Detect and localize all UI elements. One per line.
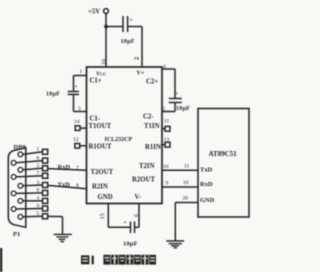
pin 11 T1IN pad [162, 119, 170, 132]
wire RxD net DB9 pin2 to pin7 T2OUT [48, 169, 87, 171]
svg-text:14: 14 [74, 119, 80, 125]
DB9 pin 1 [18, 147, 48, 157]
wire TxD net DB9 pin3 to pin8 R2IN [48, 185, 87, 188]
DB9 pin 4 [18, 196, 48, 204]
wire C1 down to pin3 [73, 94, 75, 111]
svg-text:T2IN: T2IN [139, 163, 155, 170]
IC U2 AT89C51 [198, 109, 249, 218]
caption 图1 串行通信原理图 [81, 255, 156, 265]
svg-text:GND: GND [200, 197, 215, 204]
svg-text:V+: V+ [137, 71, 145, 77]
ground GND2 (AT89C51) [166, 241, 184, 248]
svg-text:8: 8 [76, 183, 79, 189]
svg-text:12: 12 [73, 137, 79, 143]
svg-text:10: 10 [163, 164, 169, 170]
pin 12 R1OUT pad [73, 137, 87, 148]
wire pin4 C2+ [162, 68, 175, 70]
DB9 pin 9 [11, 203, 48, 211]
DB9 pin 2 [18, 163, 48, 172]
svg-text:10: 10 [183, 180, 189, 186]
node junction on +5V rail [104, 25, 108, 29]
wire pin5 C2- [162, 111, 175, 113]
svg-text:C1-: C1- [90, 116, 101, 123]
svg-text:2: 2 [134, 57, 141, 60]
DB9 pin 8 [11, 188, 48, 196]
svg-text:AT89C51: AT89C51 [209, 150, 238, 158]
pin 14 T1OUT pad [74, 119, 87, 130]
wire C2 to pin5 [174, 103, 176, 112]
svg-text:+: + [124, 220, 127, 226]
svg-text:C2+: C2+ [146, 79, 158, 86]
ground GND1 (DB9) [54, 234, 72, 241]
svg-text:R2OUT: R2OUT [132, 177, 156, 184]
svg-text:20: 20 [183, 196, 189, 202]
svg-text:13: 13 [164, 137, 170, 143]
svg-text:V-: V- [135, 194, 142, 201]
capacitor C1 10uF (left) [46, 84, 79, 98]
wire C3 to V+ [128, 26, 142, 28]
svg-text:RxD: RxD [58, 164, 71, 171]
svg-text:11: 11 [164, 119, 170, 125]
DB9 pin 7 [11, 171, 48, 180]
wire pin1 C1+ [74, 75, 87, 77]
svg-text:RxD: RxD [200, 181, 213, 188]
wire DB9 pin5 to ground [48, 216, 63, 234]
svg-text:+: + [75, 84, 78, 90]
wire junction to C3 [106, 26, 123, 28]
svg-text:TxD: TxD [58, 182, 71, 189]
capacitor C2 10uF (right) [169, 91, 191, 112]
wire V+ stub pin2 [141, 27, 143, 68]
capacitor C4 10uF (bottom) [123, 220, 138, 248]
svg-text:R1OUT: R1OUT [89, 144, 113, 151]
svg-text:9: 9 [37, 203, 40, 209]
DB9 pin 6 [11, 155, 48, 165]
wire pin6 V- stub [138, 204, 140, 228]
svg-text:R2IN: R2IN [92, 184, 108, 191]
DB9 pin 5 [18, 211, 48, 219]
wire pin4 down to C2 [174, 69, 176, 98]
svg-text:C2-: C2- [143, 114, 154, 121]
wire pin10 T2IN to U2 pin11 TxD [162, 169, 198, 171]
wire C4 to V- [135, 226, 140, 228]
svg-text:2: 2 [37, 163, 40, 169]
svg-text:GND: GND [98, 194, 113, 201]
wire +5V to pin16 Vcc [105, 14, 107, 68]
wire pin15 GND stub [107, 204, 109, 228]
svg-text:3: 3 [78, 106, 81, 112]
wire pin3 C1- [74, 111, 87, 113]
svg-text:11: 11 [184, 164, 190, 170]
power +5V terminal [88, 9, 108, 16]
DB9 pin 3 [18, 180, 48, 188]
capacitor C3 10uF (top) [121, 16, 135, 45]
svg-text:10μF: 10μF [123, 241, 138, 248]
svg-text:9: 9 [166, 181, 169, 187]
svg-text:T1OUT: T1OUT [89, 123, 112, 130]
svg-text:T1IN: T1IN [144, 123, 160, 130]
svg-text:10μF: 10μF [46, 92, 60, 98]
svg-text:4: 4 [163, 64, 166, 70]
svg-text:1: 1 [80, 69, 83, 75]
svg-text:+: + [175, 91, 178, 97]
svg-text:TxD: TxD [200, 167, 213, 174]
svg-text:R1IN: R1IN [145, 144, 161, 151]
svg-text:7: 7 [37, 171, 40, 177]
svg-text:7: 7 [76, 166, 79, 172]
IC U1 ICL232CP [87, 67, 163, 204]
svg-text:8: 8 [37, 188, 40, 194]
svg-text:P1: P1 [13, 231, 20, 238]
svg-text:6: 6 [37, 155, 40, 161]
svg-text:+5V: +5V [88, 9, 100, 16]
svg-text:C1+: C1+ [90, 78, 102, 85]
wire pin1 down to C1 [73, 76, 75, 92]
wire U2 pin20 GND [175, 196, 198, 241]
svg-text:10μF: 10μF [121, 39, 135, 45]
svg-text:+: + [130, 18, 133, 24]
svg-text:5: 5 [37, 211, 40, 217]
svg-text:ICL232CP: ICL232CP [105, 137, 133, 143]
svg-text:10μF: 10μF [176, 106, 190, 112]
svg-text:16: 16 [102, 59, 108, 65]
svg-text:DB9: DB9 [14, 144, 27, 151]
svg-text:3: 3 [37, 180, 40, 186]
svg-text:4: 4 [37, 196, 40, 202]
wire GND to C4 [108, 226, 130, 228]
svg-text:15: 15 [99, 213, 106, 219]
scan smudge left edge [0, 248, 2, 272]
svg-text:T2OUT: T2OUT [91, 169, 114, 176]
wire pin9 R2OUT to U2 pin10 RxD [162, 186, 198, 188]
svg-text:6: 6 [133, 214, 140, 217]
pin 13 R1IN pad [162, 137, 170, 147]
svg-text:5: 5 [163, 107, 166, 113]
svg-text:1: 1 [37, 147, 40, 153]
connector P1 DB9 shell [8, 144, 26, 238]
